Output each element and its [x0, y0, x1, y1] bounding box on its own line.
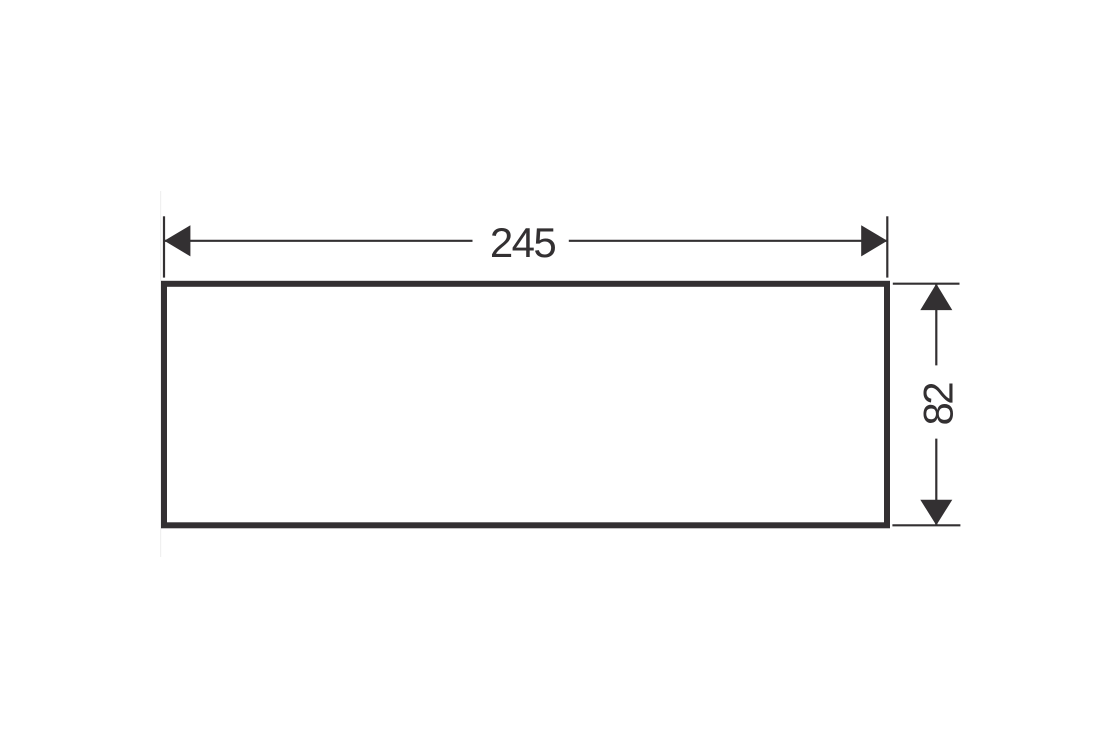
- arrowhead down (82): [920, 500, 952, 526]
- rectangle outline (product body): [164, 284, 887, 526]
- dimension line 82 bottom segment: [935, 439, 937, 525]
- arrowhead up (82): [920, 284, 952, 310]
- arrowhead left (245): [164, 225, 190, 256]
- dimension line 245 right segment: [569, 240, 887, 242]
- dimension line 82 top segment: [935, 285, 937, 366]
- dimension line 245 left segment: [165, 240, 473, 242]
- svg-text:82: 82: [914, 383, 961, 426]
- extension line right (245): [886, 216, 888, 277]
- extension line left (245): [163, 216, 165, 277]
- faint image edge line: [160, 191, 161, 557]
- extension line top (82): [893, 283, 960, 285]
- extension line bottom (82): [892, 524, 960, 526]
- svg-text:245: 245: [490, 219, 556, 266]
- arrowhead right (245): [861, 225, 887, 256]
